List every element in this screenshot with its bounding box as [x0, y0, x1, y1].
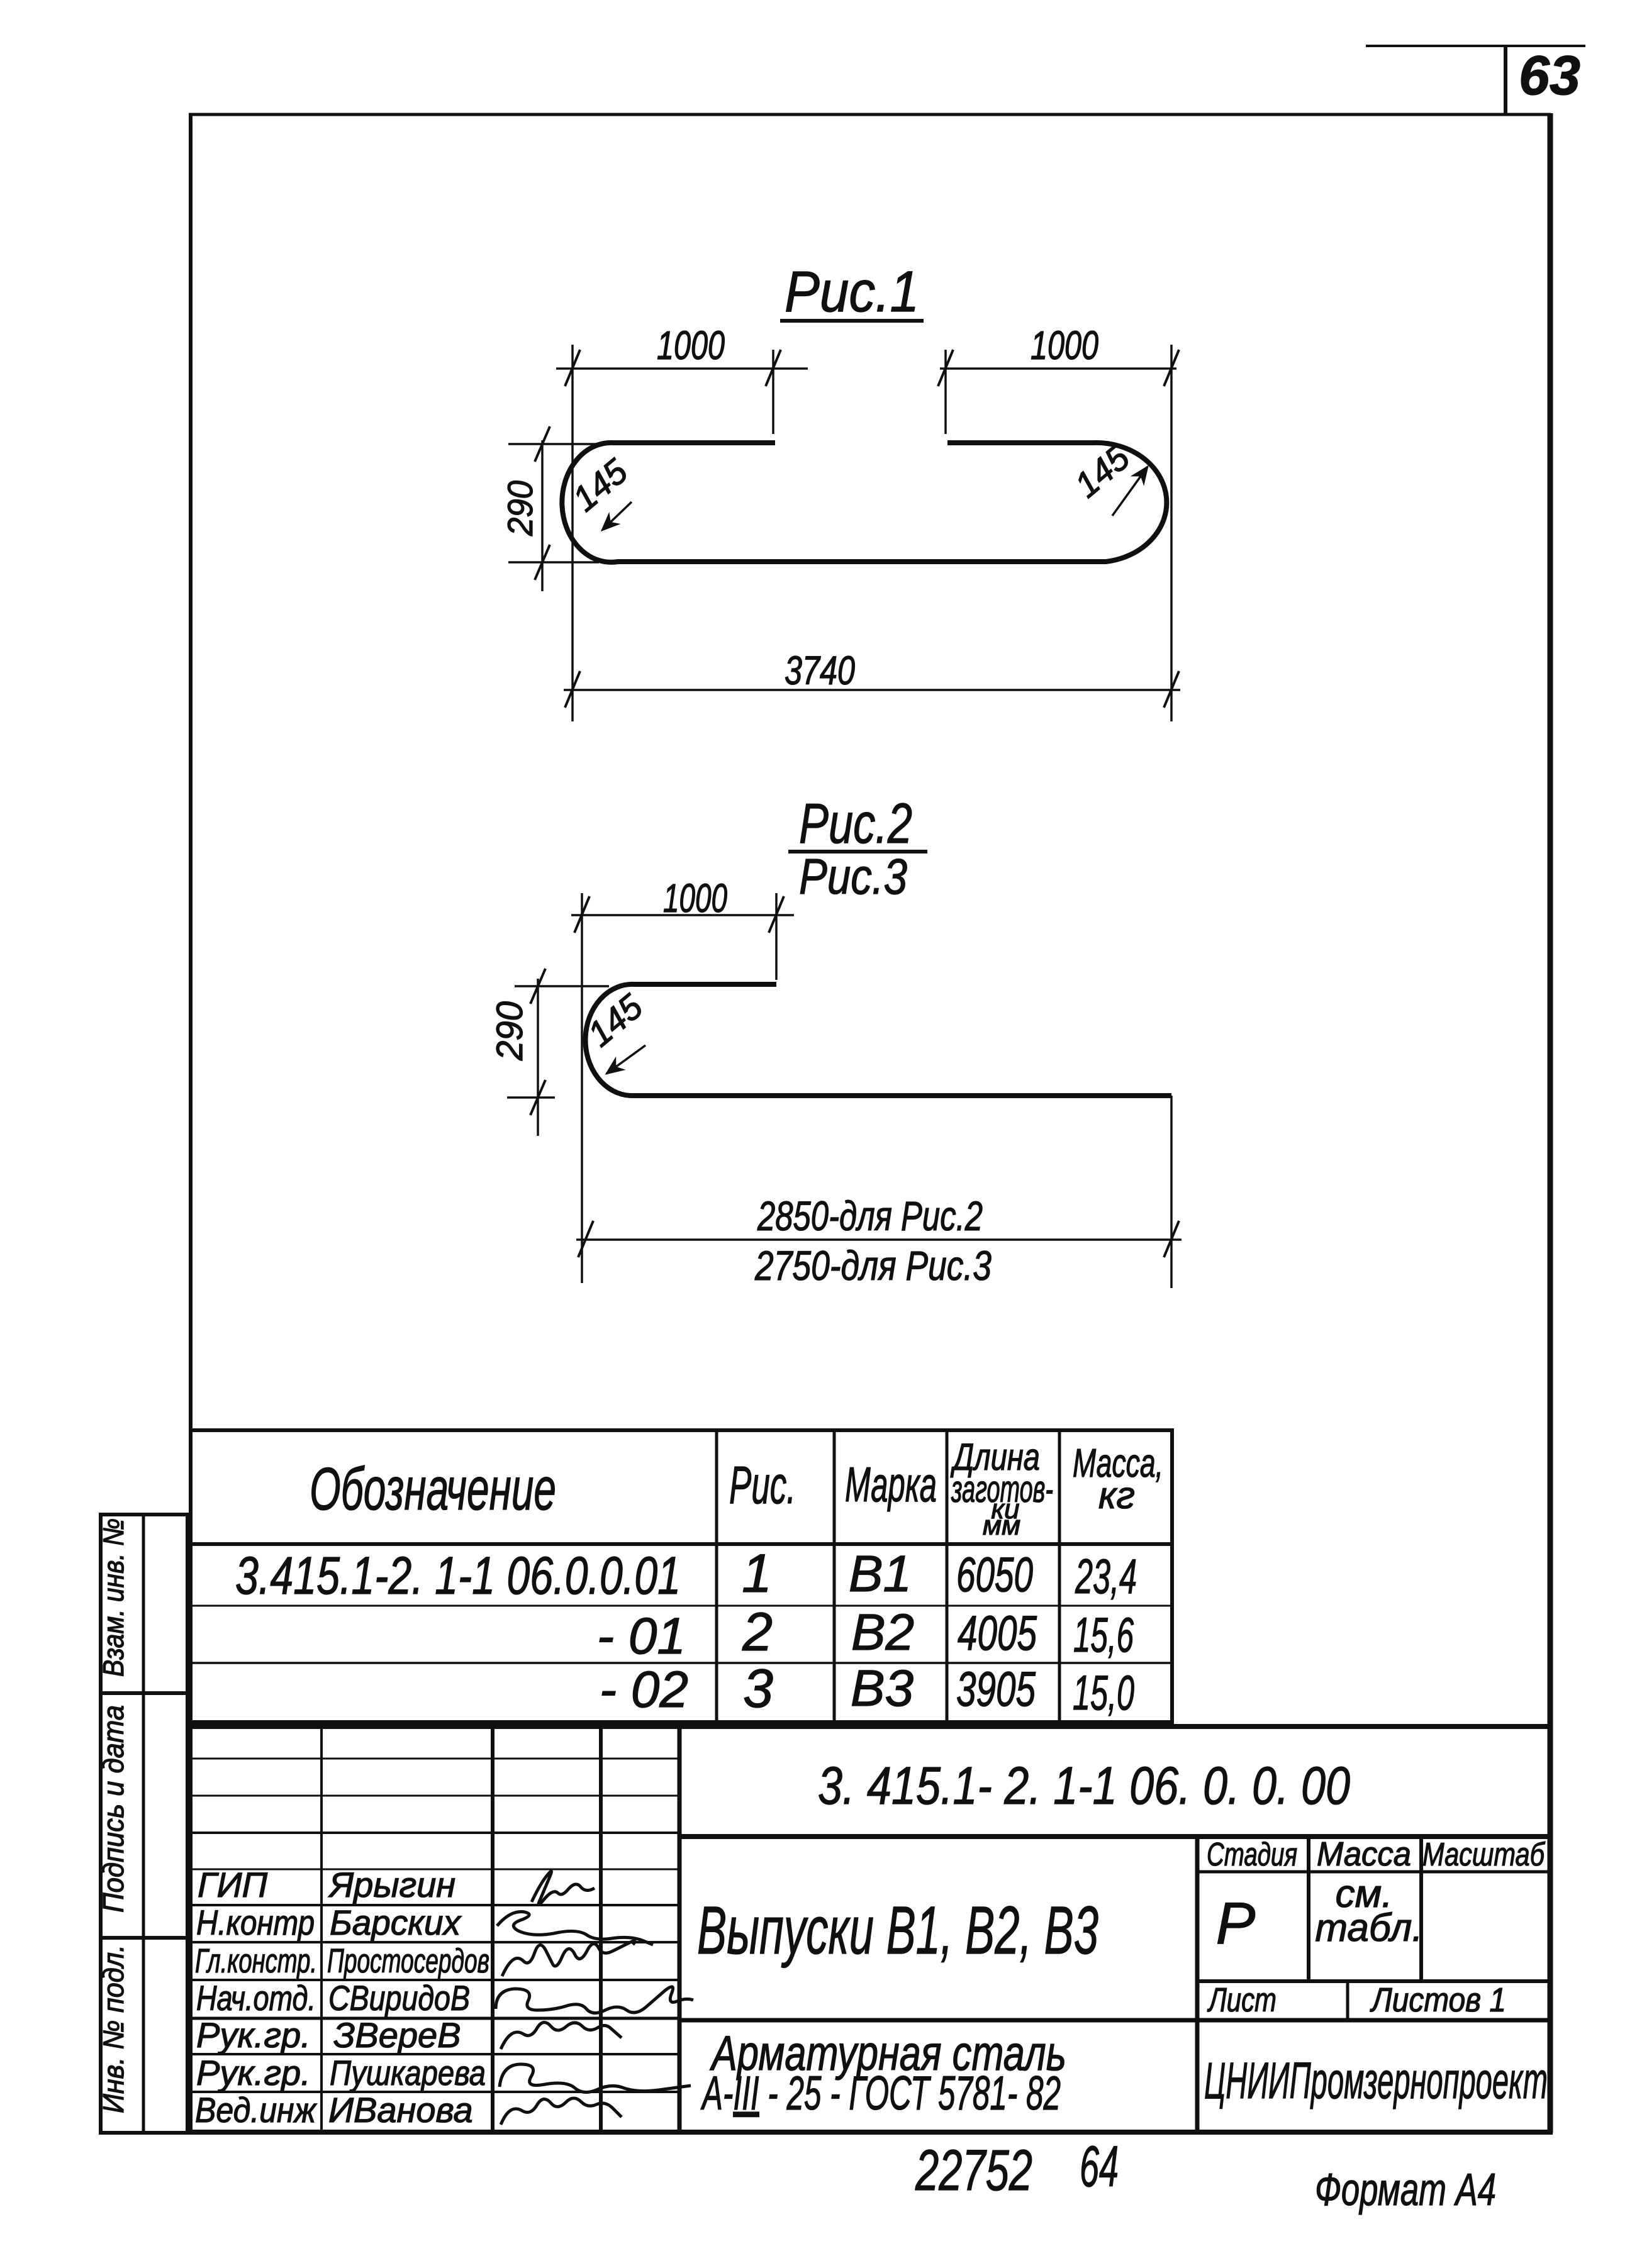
fig1 overall dim line 3740 [564, 689, 1180, 691]
svg-text:- 01: - 01 [597, 1608, 686, 1665]
svg-text:Масштаб: Масштаб [1422, 1837, 1545, 1873]
svg-text:Гл.констр.: Гл.констр. [195, 1942, 317, 1980]
margin box Подпись divider [142, 1693, 145, 1938]
fig1 dim 290 top extension [508, 443, 596, 445]
fig2 tick 290 top [530, 969, 545, 1004]
table column line after Длина [1058, 1430, 1061, 1721]
svg-text:А-III - 25 - ГОСТ 5781- 82: А-III - 25 - ГОСТ 5781- 82 [700, 2067, 1061, 2120]
fig1 tick 3740 right [1164, 671, 1179, 708]
signature Простосердов [502, 1941, 635, 1976]
figure 2 fraction line [788, 850, 927, 853]
fig2 tick 290 bottom [530, 1080, 545, 1115]
table header bottom line [191, 1542, 1172, 1546]
table row line 2 [191, 1662, 1172, 1664]
title block left col line 2 [491, 1726, 494, 2132]
svg-text:3.415.1-2. 1-1 06.0.0.01: 3.415.1-2. 1-1 06.0.0.01 [235, 1546, 681, 1605]
svg-text:290: 290 [500, 481, 540, 536]
svg-text:кг: кг [1098, 1474, 1135, 1516]
svg-text:Стадия: Стадия [1207, 1837, 1297, 1873]
svg-text:Рис.: Рис. [729, 1455, 796, 1515]
fig2 dimension line 1000 [571, 914, 794, 916]
fig1 extension line far right [1170, 345, 1173, 721]
fig1 dim 290 vertical line [541, 440, 544, 591]
svg-text:Рис.1: Рис.1 [785, 260, 919, 324]
figure 1 title underline [780, 319, 924, 323]
svg-text:1000: 1000 [1031, 323, 1098, 368]
svg-text:22752: 22752 [915, 2138, 1032, 2203]
svg-text:15,6: 15,6 [1073, 1607, 1134, 1662]
fig2 dim 290 vertical line [537, 979, 539, 1136]
fig2 extension line left long [581, 893, 583, 1283]
svg-text:64: 64 [1080, 2135, 1119, 2199]
fig1 extension line far left [571, 345, 574, 721]
svg-text:1: 1 [742, 1543, 772, 1604]
svg-text:ЗВереВ: ЗВереВ [333, 2015, 461, 2055]
svg-text:СВиридоВ: СВиридоВ [328, 1978, 470, 2018]
title block left col line 1 [320, 1726, 323, 2132]
svg-text:Ярыгин: Ярыгин [328, 1865, 455, 1904]
svg-text:3: 3 [743, 1659, 773, 1719]
svg-text:Подпись и дата: Подпись и дата [97, 1705, 130, 1913]
frame right border [1548, 113, 1553, 2133]
fig2 tick 1000 left [574, 896, 589, 933]
svg-text:Инв. № подл.: Инв. № подл. [97, 1945, 130, 2113]
frame top border [189, 113, 1551, 116]
svg-text:2850-для Рис.2: 2850-для Рис.2 [757, 1192, 983, 1239]
fig1 tick left dim right [766, 350, 781, 386]
table column line after Марка [946, 1430, 949, 1721]
Лист row divider [1346, 1981, 1349, 2020]
svg-text:290: 290 [489, 1001, 530, 1061]
svg-text:1000: 1000 [663, 876, 727, 921]
title block left row lines [191, 1758, 679, 1760]
svg-text:1000: 1000 [657, 323, 725, 368]
signature Иванова [501, 2098, 622, 2125]
svg-text:В3: В3 [851, 1660, 913, 1717]
svg-text:ЦНИИПромзернопроект: ЦНИИПромзернопроект [1204, 2052, 1548, 2110]
margin box Инв.№подл. [101, 1938, 187, 2133]
fig1 tick 290 top [535, 426, 550, 462]
title cell bottom line [679, 2018, 1551, 2023]
fig2 bottom dimension line [576, 1238, 1182, 1241]
fig1 dim 290 bottom extension [508, 561, 599, 564]
fig2 radius arrow [606, 1045, 645, 1074]
svg-text:Рук.гр.: Рук.гр. [196, 2053, 311, 2093]
svg-text:ГИП: ГИП [198, 1865, 268, 1904]
sheet number box left line [1504, 46, 1507, 114]
svg-text:табл.: табл. [1315, 1906, 1422, 1950]
fig1 tick left dim left [565, 350, 580, 386]
fig2 extension line bottom right [1170, 1096, 1173, 1288]
margin box Взам.инв.№ [101, 1515, 187, 1693]
margin box Взам divider [142, 1515, 145, 1693]
fig2 rebar bar B2 C-shape [585, 984, 1171, 1096]
svg-text:Пушкарева: Пушкарева [330, 2053, 486, 2093]
svg-text:ИВанова: ИВанова [328, 2090, 473, 2130]
signature Барских [497, 1911, 653, 1945]
table top border [191, 1428, 1174, 1432]
fig1 tick right dim left [938, 350, 953, 386]
margin box Инв divider [142, 1938, 145, 2133]
fig1 right radius arrow [1112, 467, 1148, 516]
fig1 extension line inner left [772, 350, 774, 434]
table column line after Обозначение [715, 1430, 718, 1721]
svg-text:3. 415.1- 2. 1-1 06. 0. 0. 00: 3. 415.1- 2. 1-1 06. 0. 0. 00 [818, 1756, 1350, 1815]
svg-text:Листов 1: Листов 1 [1370, 1981, 1506, 2019]
svg-text:3740: 3740 [785, 648, 855, 693]
svg-text:В2: В2 [851, 1604, 914, 1661]
svg-text:Выпуски В1, В2, В3: Выпуски В1, В2, В3 [697, 1892, 1098, 1968]
Стадия column line [1307, 1837, 1310, 1981]
fig1 right dimension line 1000 [940, 367, 1176, 370]
fig1 left dimension line 1000 [556, 367, 808, 370]
svg-text:2750-для Рис.3: 2750-для Рис.3 [754, 1242, 992, 1289]
svg-text:4005: 4005 [958, 1605, 1037, 1660]
svg-text:мм: мм [983, 1510, 1020, 1541]
fig1 rebar bar B1 stadium shape [562, 443, 1166, 562]
table right border [1170, 1430, 1174, 1724]
fig2 extension line right of 1000 [775, 893, 778, 980]
svg-text:Рис.2: Рис.2 [799, 792, 912, 855]
designation cell bottom line [679, 1834, 1551, 1839]
svg-text:Барских: Барских [330, 1903, 462, 1942]
margin box Подпись и дата [101, 1693, 187, 1938]
fig1 left radius arrow [602, 502, 632, 530]
line above Лист row [1197, 1979, 1550, 1983]
svg-text:Масса: Масса [1317, 1835, 1411, 1873]
svg-text:Р: Р [1216, 1890, 1256, 1956]
signature Ярыгин [532, 1871, 595, 1904]
svg-text:В1: В1 [849, 1545, 912, 1603]
signature Пушкарева [500, 2064, 691, 2093]
fig2 tick bottom dim left [578, 1221, 593, 1257]
stamp right section divider [1195, 1837, 1200, 2132]
fig1 tick 3740 left [565, 671, 580, 708]
svg-text:Марка: Марка [845, 1457, 937, 1512]
Масса column line [1419, 1837, 1423, 1981]
svg-text:Рук.гр.: Рук.гр. [196, 2015, 311, 2055]
title block left col line 3 [599, 1726, 603, 2132]
fig1 tick 290 bottom [535, 545, 550, 580]
svg-text:Обозначение: Обозначение [310, 1455, 556, 1523]
frame left border [189, 113, 193, 2133]
svg-text:Лист: Лист [1207, 1981, 1277, 2019]
svg-text:6050: 6050 [956, 1547, 1033, 1602]
fig2 dim 290 top extension [515, 985, 609, 987]
fig2 tick 1000 right [769, 896, 784, 933]
svg-text:Н.контр: Н.контр [196, 1903, 315, 1942]
table row line 1 [191, 1605, 1172, 1607]
frame bottom border [189, 2130, 1553, 2135]
svg-text:63: 63 [1519, 44, 1580, 106]
svg-text:Рис.3: Рис.3 [799, 848, 907, 904]
title block top line [189, 1724, 1551, 1729]
svg-text:15,0: 15,0 [1073, 1665, 1134, 1720]
svg-text:23,4: 23,4 [1075, 1548, 1137, 1604]
table column line after Рис [833, 1430, 836, 1721]
svg-text:Взам. инв. №: Взам. инв. № [97, 1518, 130, 1677]
svg-text:Простосердов: Простосердов [327, 1942, 489, 1980]
fig2 tick bottom dim right [1164, 1221, 1179, 1257]
title block left part right edge [678, 1726, 682, 2132]
svg-text:2: 2 [742, 1602, 773, 1662]
svg-text:Формат А4: Формат А4 [1315, 2165, 1496, 2215]
fig2 dim 290 bottom extension [507, 1096, 555, 1099]
signature Зверев [501, 2022, 622, 2049]
signature Свиридов [496, 1987, 693, 2013]
table bottom border [191, 1720, 1174, 1724]
svg-text:Вед.инж: Вед.инж [195, 2090, 317, 2130]
fig1 tick right dim right [1164, 350, 1179, 386]
sheet number box top line [1366, 45, 1585, 47]
fig1 extension line inner right [944, 350, 947, 434]
svg-text:3905: 3905 [956, 1661, 1036, 1716]
svg-text:Нач.отд.: Нач.отд. [196, 1978, 316, 2018]
Стадия header underline [1197, 1871, 1550, 1874]
svg-text:- 02: - 02 [600, 1661, 688, 1718]
